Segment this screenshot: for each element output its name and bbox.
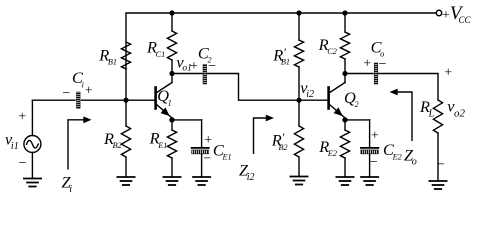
- wire RC1 stub: [171, 13, 173, 31]
- wire Co to RL: [379, 74, 438, 101]
- resistor RC1: [167, 31, 176, 60]
- wire Vcc rail: [126, 13, 436, 100]
- arrow Zi2: [254, 118, 267, 154]
- wire RL to ground: [437, 133, 439, 181]
- ground RB2: [117, 177, 134, 185]
- svg-text:+: +: [18, 110, 26, 125]
- resistor RB1: [121, 42, 130, 69]
- ground RL: [429, 181, 446, 189]
- wire RC1 to collector: [171, 60, 173, 74]
- svg-text:−: −: [379, 57, 387, 72]
- transistor Q2: [329, 74, 345, 118]
- wire vo1 to C2: [172, 73, 202, 75]
- wire input left: [33, 99, 76, 101]
- node RB1p rail junction: [296, 10, 301, 15]
- ground CE2: [361, 177, 378, 185]
- source vi1: [24, 100, 41, 178]
- svg-text:−: −: [19, 156, 27, 171]
- arrow Zo: [397, 92, 412, 141]
- ground CE1: [193, 177, 210, 185]
- svg-text:Ci: Ci: [72, 68, 85, 89]
- terminal +Vcc: [436, 10, 441, 15]
- svg-text:+: +: [190, 59, 198, 74]
- ground RE2: [336, 177, 353, 185]
- node vi2: [296, 98, 301, 103]
- capacitor CE2: [345, 120, 378, 177]
- node RC2 rail junction: [342, 10, 347, 15]
- svg-text:−: −: [208, 59, 216, 74]
- svg-text:+: +: [204, 133, 212, 148]
- resistor RL: [433, 100, 442, 133]
- resistor RE2: [340, 120, 349, 177]
- ground RE1: [163, 177, 180, 185]
- resistor RB2: [121, 100, 130, 177]
- node RC1 rail junction: [169, 10, 174, 15]
- svg-text:+: +: [371, 129, 379, 144]
- wire input right: [82, 99, 156, 101]
- transistor Q1: [156, 74, 172, 118]
- wire C2 to vi2: [208, 74, 329, 101]
- node base1 junction: [123, 98, 128, 103]
- capacitor Co: [374, 63, 378, 84]
- svg-text:+: +: [85, 83, 93, 98]
- svg-text:+: +: [363, 56, 371, 71]
- resistor RE1: [167, 120, 176, 177]
- capacitor CE1: [172, 120, 209, 177]
- node vo1: [169, 71, 174, 76]
- node emitter2: [342, 117, 347, 122]
- svg-text:−: −: [437, 157, 445, 172]
- node emitter1: [169, 117, 174, 122]
- ground R'B2: [290, 177, 307, 185]
- svg-text:−: −: [203, 151, 211, 166]
- capacitor C2: [203, 65, 207, 85]
- svg-text:+: +: [444, 65, 452, 80]
- capacitor Ci: [77, 92, 81, 108]
- svg-text:−: −: [370, 155, 378, 170]
- ground source: [24, 179, 41, 187]
- resistor R'B1: [294, 13, 303, 100]
- arrow Zi: [68, 120, 84, 170]
- resistor R'B2: [294, 100, 303, 176]
- svg-text:−: −: [62, 86, 70, 101]
- wire collector2 to Co: [345, 73, 373, 75]
- node collector2: [342, 71, 347, 76]
- resistor RC2: [340, 13, 349, 74]
